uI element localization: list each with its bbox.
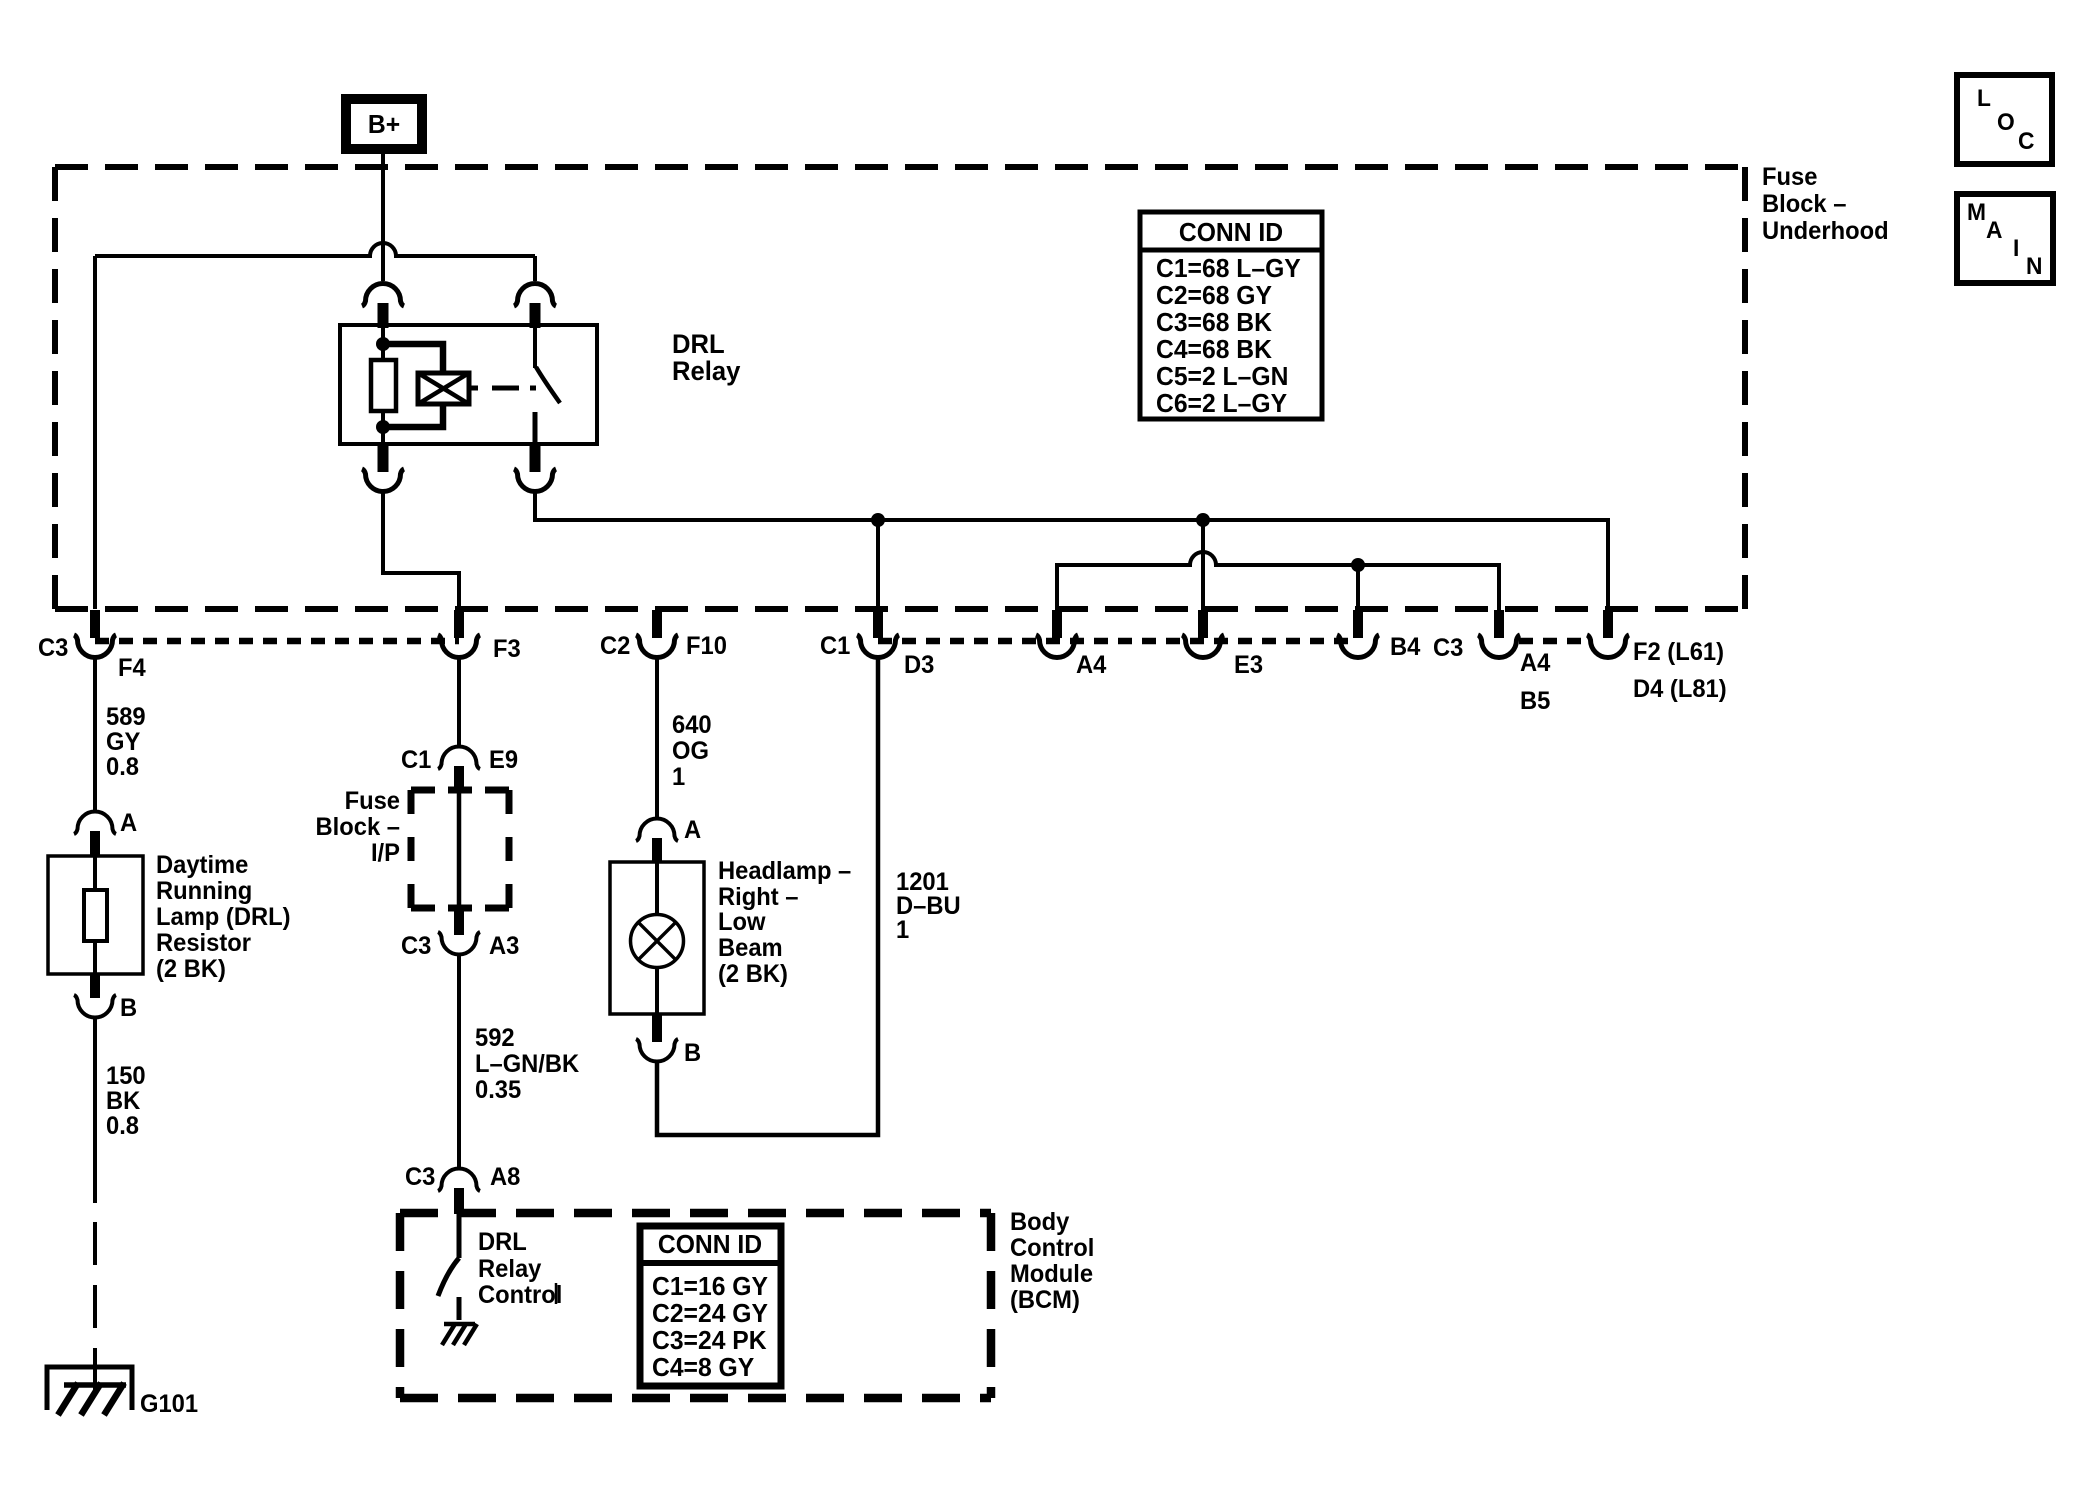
svg-text:A: A — [684, 816, 701, 844]
svg-text:B+: B+ — [368, 110, 400, 139]
svg-text:B: B — [120, 994, 137, 1022]
svg-text:(BCM): (BCM) — [1010, 1286, 1080, 1314]
svg-text:F4: F4 — [118, 654, 146, 682]
svg-text:B5: B5 — [1520, 687, 1550, 715]
svg-text:C2=68 GY: C2=68 GY — [1156, 281, 1272, 310]
svg-text:E3: E3 — [1234, 651, 1263, 679]
svg-text:B4: B4 — [1390, 633, 1421, 661]
svg-text:F10: F10 — [686, 632, 727, 660]
svg-text:C2=24 GY: C2=24 GY — [652, 1299, 768, 1328]
svg-text:BK: BK — [106, 1087, 141, 1115]
svg-text:C6=2 L–GY: C6=2 L–GY — [1156, 389, 1287, 418]
svg-text:C4=68 BK: C4=68 BK — [1156, 335, 1273, 364]
svg-text:640: 640 — [672, 711, 712, 739]
svg-text:Low: Low — [718, 908, 766, 936]
svg-text:F3: F3 — [493, 635, 521, 663]
svg-text:A: A — [1986, 216, 2003, 243]
svg-text:Module: Module — [1010, 1260, 1093, 1288]
svg-text:(2 BK): (2 BK) — [156, 955, 226, 983]
svg-text:1: 1 — [672, 763, 685, 791]
svg-text:Body: Body — [1010, 1208, 1070, 1236]
svg-text:C3: C3 — [401, 932, 431, 960]
svg-text:D4 (L81): D4 (L81) — [1633, 675, 1727, 703]
svg-text:Lamp (DRL): Lamp (DRL) — [156, 903, 291, 931]
svg-text:(2 BK): (2 BK) — [718, 960, 788, 988]
svg-text:C3: C3 — [38, 634, 68, 662]
svg-text:0.8: 0.8 — [106, 1112, 139, 1140]
svg-text:C1=68 L–GY: C1=68 L–GY — [1156, 254, 1301, 283]
svg-text:C4=8 GY: C4=8 GY — [652, 1353, 754, 1382]
svg-text:Fuse: Fuse — [1762, 163, 1817, 191]
svg-text:CONN ID: CONN ID — [1179, 218, 1283, 247]
svg-text:I: I — [2013, 234, 2019, 261]
svg-text:592: 592 — [475, 1024, 515, 1052]
svg-text:Headlamp –: Headlamp – — [718, 857, 851, 885]
svg-text:A4: A4 — [1076, 651, 1107, 679]
svg-text:Daytime: Daytime — [156, 851, 248, 879]
svg-text:A: A — [120, 809, 137, 837]
svg-text:C3=24 PK: C3=24 PK — [652, 1326, 767, 1355]
svg-text:0.8: 0.8 — [106, 753, 139, 781]
svg-text:C3: C3 — [1433, 634, 1463, 662]
svg-text:C3=68 BK: C3=68 BK — [1156, 308, 1273, 337]
svg-text:Control: Control — [1010, 1234, 1094, 1262]
svg-text:O: O — [1997, 108, 2015, 135]
svg-text:G101: G101 — [140, 1390, 198, 1418]
svg-text:589: 589 — [106, 703, 146, 731]
svg-text:A4: A4 — [1520, 649, 1551, 677]
svg-text:C3: C3 — [405, 1163, 435, 1191]
svg-text:OG: OG — [672, 737, 709, 765]
svg-text:1: 1 — [896, 916, 909, 944]
svg-text:GY: GY — [106, 728, 140, 756]
svg-text:150: 150 — [106, 1062, 146, 1090]
svg-text:Right –: Right – — [718, 883, 798, 911]
svg-text:N: N — [2026, 252, 2042, 279]
svg-text:A8: A8 — [490, 1163, 520, 1191]
svg-text:L–GN/BK: L–GN/BK — [475, 1050, 580, 1078]
svg-text:Resistor: Resistor — [156, 929, 252, 957]
svg-text:F2 (L61): F2 (L61) — [1633, 638, 1724, 666]
svg-text:C1: C1 — [820, 632, 850, 660]
svg-text:0.35: 0.35 — [475, 1076, 521, 1104]
svg-text:C1=16 GY: C1=16 GY — [652, 1272, 768, 1301]
svg-text:C2: C2 — [600, 632, 630, 660]
svg-text:Control: Control — [478, 1281, 562, 1309]
svg-text:Relay: Relay — [478, 1255, 542, 1283]
svg-text:CONN ID: CONN ID — [658, 1230, 762, 1259]
svg-text:Beam: Beam — [718, 934, 783, 962]
svg-text:D3: D3 — [904, 651, 934, 679]
svg-text:C: C — [2018, 127, 2035, 154]
svg-text:Running: Running — [156, 877, 252, 905]
svg-text:A3: A3 — [489, 932, 519, 960]
svg-text:C1: C1 — [401, 746, 431, 774]
svg-text:B: B — [684, 1039, 701, 1067]
svg-text:DRL: DRL — [478, 1228, 527, 1256]
svg-text:I/P: I/P — [371, 839, 400, 867]
svg-text:Block –: Block – — [1762, 190, 1846, 218]
svg-text:Block –: Block – — [316, 813, 400, 841]
svg-text:M: M — [1967, 198, 1986, 225]
svg-text:E9: E9 — [489, 746, 518, 774]
svg-text:Fuse: Fuse — [345, 787, 400, 815]
svg-text:L: L — [1977, 84, 1991, 111]
svg-text:Relay: Relay — [672, 355, 741, 386]
svg-text:C5=2 L–GN: C5=2 L–GN — [1156, 362, 1288, 391]
svg-text:Underhood: Underhood — [1762, 217, 1889, 245]
